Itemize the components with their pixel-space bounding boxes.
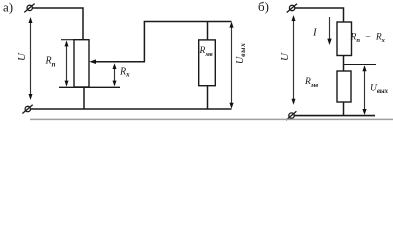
resistor Rмв (a) — [199, 40, 216, 86]
wire stub bottom Rмв (a) — [207, 86, 209, 109]
terminal b-top — [287, 4, 297, 13]
terminal a-bottom — [22, 105, 32, 114]
potentiometer Rп — [74, 40, 89, 87]
page rule — [30, 118, 393, 120]
svg-text:Uвых: Uвых — [370, 84, 389, 95]
voltage arrow Uвых (b) — [362, 65, 366, 115]
wire stub top Rмв (a) — [207, 22, 209, 40]
wire stub bottom (b) — [343, 102, 345, 116]
svg-text:б): б) — [258, 0, 269, 14]
wire junction (b) — [343, 56, 345, 72]
voltage arrow U (b) — [292, 15, 296, 105]
terminal b-bottom — [286, 111, 296, 120]
voltage arrow U (a) — [29, 17, 33, 100]
wire stub bottom potentiometer — [83, 87, 85, 109]
dimension arrow Rх — [113, 63, 117, 86]
svg-text:Rп − Rх: Rп − Rх — [350, 33, 386, 45]
svg-text:I: I — [312, 27, 318, 39]
dimension arrow Rп — [65, 40, 69, 86]
wire bottom b — [295, 115, 376, 117]
tick top left — [61, 39, 74, 41]
svg-text:U: U — [16, 52, 28, 61]
wire bottom a — [31, 108, 232, 110]
svg-text:U: U — [279, 52, 291, 61]
resistor Rмв (b) — [337, 71, 351, 102]
current arrow I — [327, 17, 331, 45]
svg-text:Rх: Rх — [119, 67, 130, 79]
resistor Rп-Rх (b) — [337, 22, 352, 56]
svg-text:Rп: Rп — [45, 56, 56, 69]
svg-text:а): а) — [3, 0, 13, 15]
svg-text:Uвых: Uвых — [235, 43, 247, 64]
terminal a-top — [24, 4, 34, 13]
wire top a — [32, 8, 83, 40]
svg-text:Rмв: Rмв — [304, 77, 318, 89]
wire wiper to output (a) — [144, 22, 231, 62]
tick bottom reference — [59, 86, 120, 88]
voltage arrow Uвых (a) — [229, 22, 233, 109]
wiper arrow — [89, 59, 145, 64]
tick output top (b) — [344, 64, 376, 66]
wire top b — [295, 8, 344, 22]
